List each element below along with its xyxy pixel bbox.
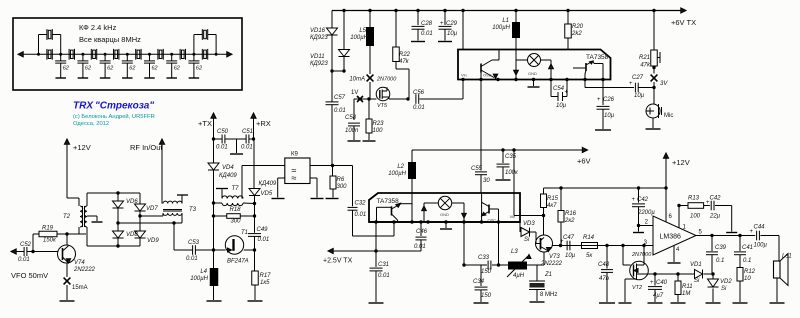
- svg-text:Si: Si: [524, 237, 530, 243]
- svg-text:2N2222: 2N2222: [73, 267, 96, 273]
- svg-text:КФ 2.4 kHz: КФ 2.4 kHz: [79, 23, 117, 32]
- svg-text:+: +: [629, 81, 633, 87]
- svg-text:47k: 47k: [399, 59, 410, 65]
- svg-text:100µH: 100µH: [190, 276, 208, 282]
- svg-text:100n: 100n: [345, 128, 359, 134]
- svg-text:10µ: 10µ: [604, 113, 615, 119]
- svg-text:C54: C54: [553, 86, 565, 92]
- svg-text:0.01: 0.01: [355, 212, 367, 218]
- svg-text:+: +: [750, 229, 754, 235]
- svg-text:62: 62: [107, 66, 113, 72]
- svg-text:C42: C42: [710, 196, 722, 202]
- svg-text:15mA: 15mA: [72, 285, 88, 291]
- svg-text:0.01: 0.01: [186, 256, 198, 262]
- svg-text:C27: C27: [632, 75, 644, 81]
- svg-text:C26: C26: [603, 97, 615, 103]
- svg-text:C58: C58: [345, 115, 357, 121]
- svg-text:R16: R16: [565, 211, 577, 217]
- svg-text:4µ7: 4µ7: [653, 293, 664, 299]
- svg-text:GND: GND: [440, 212, 449, 217]
- svg-text:C39: C39: [715, 245, 727, 251]
- svg-text:62: 62: [152, 66, 158, 72]
- svg-text:R15: R15: [547, 196, 559, 202]
- svg-text:2200µ: 2200µ: [637, 210, 655, 216]
- svg-text:300: 300: [231, 219, 242, 225]
- svg-text:TA7358: TA7358: [586, 54, 609, 61]
- svg-text:GND: GND: [528, 71, 537, 76]
- svg-text:+2.5V TX: +2.5V TX: [323, 258, 353, 265]
- svg-text:0.01: 0.01: [18, 257, 30, 263]
- svg-text:2N7000: 2N7000: [376, 77, 397, 83]
- svg-text:К9: К9: [291, 152, 298, 158]
- svg-text:2N2222: 2N2222: [540, 261, 563, 267]
- svg-text:R11: R11: [682, 284, 693, 290]
- svg-text:BF247A: BF247A: [227, 259, 249, 265]
- svg-text:C52: C52: [20, 242, 32, 248]
- svg-text:100µ: 100µ: [754, 243, 768, 249]
- svg-text:R17: R17: [260, 273, 272, 279]
- svg-text:C40: C40: [656, 280, 668, 286]
- svg-text:КД923: КД923: [310, 35, 328, 41]
- svg-text:C49: C49: [257, 227, 269, 233]
- svg-text:OSC: OSC: [488, 218, 497, 223]
- svg-text:C55: C55: [471, 166, 483, 172]
- svg-text:C53: C53: [188, 240, 200, 246]
- svg-text:300: 300: [337, 184, 348, 190]
- svg-text:150: 150: [481, 293, 492, 299]
- svg-text:3V: 3V: [660, 81, 668, 87]
- svg-text:VD16: VD16: [310, 28, 326, 34]
- svg-text:22µ: 22µ: [709, 214, 721, 220]
- svg-text:1к5: 1к5: [260, 280, 270, 286]
- svg-text:R13: R13: [688, 196, 700, 202]
- svg-text:+: +: [631, 197, 635, 203]
- svg-text:VT5: VT5: [377, 103, 388, 109]
- svg-text:L5: L5: [359, 28, 366, 34]
- svg-text:2k2: 2k2: [571, 31, 582, 37]
- svg-text:V73: V73: [549, 254, 560, 260]
- svg-text:КД923: КД923: [310, 61, 328, 67]
- svg-text:Si: Si: [694, 278, 700, 284]
- svg-text:47n: 47n: [599, 276, 610, 282]
- svg-text:C35: C35: [505, 154, 517, 160]
- svg-text:VD5: VD5: [261, 191, 273, 197]
- svg-text:VD1: VD1: [690, 262, 702, 268]
- svg-text:C44: C44: [754, 225, 766, 231]
- svg-text:L1: L1: [502, 18, 509, 24]
- svg-text:+: +: [565, 90, 569, 96]
- svg-text:R6: R6: [337, 177, 345, 183]
- svg-text:VD9: VD9: [147, 238, 159, 244]
- svg-text:TRX: TRX: [73, 101, 94, 112]
- svg-text:0.01: 0.01: [241, 145, 253, 151]
- svg-text:0.01: 0.01: [414, 244, 426, 250]
- svg-text:T3: T3: [189, 207, 197, 213]
- svg-text:OSC: OSC: [483, 73, 492, 78]
- svg-text:C29: C29: [446, 21, 458, 27]
- svg-text:T1: T1: [241, 230, 248, 236]
- svg-text:10mA: 10mA: [349, 77, 365, 83]
- svg-text:62: 62: [174, 66, 180, 72]
- svg-text:+: +: [650, 280, 654, 286]
- svg-text:R20: R20: [572, 24, 584, 30]
- svg-text:R12: R12: [744, 269, 756, 275]
- svg-text:V74: V74: [74, 260, 85, 266]
- svg-text:C46: C46: [416, 229, 428, 235]
- svg-text:0.01: 0.01: [421, 31, 433, 37]
- svg-text:Все кварцы 8MHz: Все кварцы 8MHz: [79, 35, 141, 44]
- svg-text:R21: R21: [639, 55, 650, 61]
- svg-text:C42: C42: [637, 197, 649, 203]
- svg-text:2к2: 2к2: [564, 218, 575, 224]
- svg-text:VFO 50mV: VFO 50mV: [11, 271, 48, 280]
- svg-text:62: 62: [196, 66, 202, 72]
- svg-text:КД409: КД409: [219, 173, 237, 179]
- svg-text:10: 10: [744, 276, 751, 282]
- svg-text:4к7: 4к7: [547, 203, 557, 209]
- svg-text:30: 30: [483, 178, 490, 184]
- svg-text:R19: R19: [42, 226, 54, 232]
- svg-text:10µ: 10µ: [634, 93, 645, 99]
- svg-text:+: +: [440, 21, 444, 27]
- svg-text:100: 100: [373, 128, 384, 134]
- svg-text:C57: C57: [334, 95, 346, 101]
- svg-text:VD11: VD11: [310, 54, 325, 60]
- svg-text:62: 62: [85, 66, 91, 72]
- svg-text:КД409: КД409: [259, 181, 277, 187]
- svg-text:Vin: Vin: [461, 73, 467, 78]
- svg-text:10µ: 10µ: [447, 31, 458, 37]
- svg-text:100µH: 100µH: [388, 171, 406, 177]
- svg-text:L3: L3: [511, 249, 518, 255]
- svg-text:≈: ≈: [292, 173, 297, 183]
- svg-text:(с) Белоконь Андрей, UR5FFR: (с) Белоконь Андрей, UR5FFR: [73, 113, 155, 120]
- svg-text:C56: C56: [413, 90, 425, 96]
- svg-text:L4: L4: [200, 269, 207, 275]
- svg-text:C51: C51: [242, 129, 253, 135]
- svg-text:+6V TX: +6V TX: [671, 18, 696, 27]
- svg-text:VD2: VD2: [720, 279, 732, 285]
- svg-text:RF In/Out: RF In/Out: [130, 143, 163, 152]
- svg-text:+: +: [597, 97, 601, 103]
- svg-text:Z1: Z1: [544, 272, 552, 278]
- svg-text:R18: R18: [230, 207, 242, 213]
- svg-text:C28: C28: [421, 21, 433, 27]
- svg-text:100: 100: [690, 214, 701, 220]
- svg-text:0.01: 0.01: [378, 273, 390, 279]
- svg-text:Vin: Vin: [510, 214, 516, 219]
- svg-text:VD7: VD7: [146, 206, 158, 212]
- svg-text:+12V: +12V: [672, 158, 690, 167]
- svg-text:VD3: VD3: [523, 221, 535, 227]
- svg-text:+RX: +RX: [256, 119, 271, 128]
- svg-text:Ls1: Ls1: [782, 254, 792, 260]
- svg-text:+12V: +12V: [73, 143, 91, 152]
- svg-text:LM386: LM386: [660, 234, 682, 241]
- svg-text:L2: L2: [397, 164, 404, 170]
- svg-text:+: +: [560, 239, 564, 245]
- svg-text:+6V: +6V: [577, 157, 591, 166]
- svg-text:C31: C31: [378, 262, 389, 268]
- svg-text:+TX: +TX: [198, 119, 212, 128]
- svg-text:62: 62: [63, 66, 69, 72]
- svg-text:10µ: 10µ: [565, 253, 576, 259]
- svg-text:100µH: 100µH: [350, 35, 368, 41]
- svg-text:100µH: 100µH: [492, 25, 510, 31]
- svg-text:10µ: 10µ: [556, 103, 567, 109]
- svg-text:T7: T7: [232, 186, 240, 192]
- svg-text:0.1: 0.1: [743, 258, 751, 264]
- svg-text:"Стрекоза": "Стрекоза": [95, 101, 154, 112]
- svg-text:0.01: 0.01: [258, 237, 270, 243]
- svg-text:R14: R14: [583, 235, 595, 241]
- svg-text:Si: Si: [721, 286, 727, 292]
- svg-text:0.01: 0.01: [216, 145, 228, 151]
- svg-text:C48: C48: [598, 262, 610, 268]
- svg-text:150к: 150к: [43, 238, 57, 244]
- svg-text:1V: 1V: [351, 90, 358, 96]
- svg-text:C50: C50: [217, 129, 229, 135]
- svg-text:Одесса, 2012: Одесса, 2012: [73, 121, 109, 127]
- svg-text:62: 62: [129, 66, 135, 72]
- svg-text:T2: T2: [63, 214, 71, 220]
- svg-text:2N7000: 2N7000: [631, 252, 652, 258]
- svg-text:Mic: Mic: [664, 113, 673, 119]
- svg-text:R23: R23: [373, 121, 385, 127]
- svg-text:0.01: 0.01: [413, 105, 425, 111]
- svg-text:150: 150: [481, 269, 492, 275]
- svg-text:C34: C34: [473, 279, 485, 285]
- svg-text:0.1: 0.1: [716, 258, 724, 264]
- svg-text:1M: 1M: [682, 291, 690, 297]
- svg-text:TA7358: TA7358: [377, 198, 400, 205]
- svg-text:C33: C33: [478, 255, 490, 261]
- svg-text:C32: C32: [355, 201, 367, 207]
- svg-text:100к: 100к: [505, 170, 519, 176]
- svg-text:R22: R22: [399, 52, 411, 58]
- svg-text:+: +: [706, 200, 710, 206]
- svg-text:0.01: 0.01: [334, 108, 346, 114]
- svg-text:VD4: VD4: [222, 165, 234, 171]
- svg-text:8 MHz: 8 MHz: [540, 292, 557, 298]
- svg-text:C47: C47: [563, 235, 575, 241]
- svg-text:C41: C41: [742, 245, 753, 251]
- svg-text:VT2: VT2: [632, 285, 642, 291]
- svg-text:47k: 47k: [640, 63, 651, 69]
- svg-text:4µH: 4µH: [513, 273, 525, 279]
